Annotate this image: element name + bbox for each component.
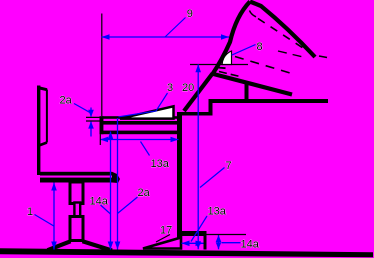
svg-text:13а: 13а [208,206,227,218]
chair base left foot [48,241,71,250]
svg-text:2а: 2а [60,95,73,107]
svg-text:9: 9 [187,8,193,20]
leader 9 [165,18,186,38]
leader 3 [119,93,168,117]
board sheet dashed line middle [235,57,290,74]
drawing board bottom edge [212,74,293,95]
svg-text:20: 20 [182,82,194,94]
board sheet dashed line upper [258,19,316,57]
desk front panel leg [177,112,182,243]
chair column lower [70,217,83,241]
chair backrest bottom cap [39,143,47,146]
desk step riser [209,99,213,116]
stray dash beyond right edge [319,56,327,58]
dimension line 13a bottom [182,242,204,244]
chair seat bottom line [40,178,114,183]
tick line for 20 [190,64,248,66]
svg-text:3: 3 [167,82,173,94]
svg-text:17: 17 [160,225,172,237]
desk slab bottom line [100,131,178,135]
leader 8 [232,45,256,56]
chair seat front edge blob [112,172,120,183]
extension line below slab left cap [99,134,101,145]
wedge stand 3 on desk [120,106,174,118]
chair backrest stem [37,86,40,176]
leader 13a left [141,142,150,156]
chair backrest right edge [46,90,48,143]
board support post [245,82,249,99]
white sail / sheet corner 8 [222,51,231,65]
board sheet dashed line lower [219,72,242,78]
desk extension tick upper (2a) [86,116,103,118]
connector to 14a bottom label [222,242,241,244]
dimension 2a upper arrows [90,108,92,117]
desk foot right drop [204,231,207,250]
desk foot bar right [179,231,207,236]
dimension line 2a second vertical [117,118,119,250]
svg-text:8: 8 [257,41,263,53]
dimension line 14a left vertical [110,132,112,250]
svg-text:14а: 14а [90,196,109,208]
floor line [0,248,373,257]
svg-text:2а: 2а [138,187,151,199]
desk slab left cap [100,116,104,134]
chair base right foot [83,241,113,250]
footrest wedge 17 [143,238,181,249]
svg-text:13а: 13а [151,158,170,170]
tick line for 14a bottom [207,234,247,236]
desk upper shelf [210,99,328,103]
svg-text:14а: 14а [241,238,260,250]
desk slab top line [100,121,178,125]
svg-text:7: 7 [226,160,232,172]
desk near surface sheet [102,116,178,119]
chair column neck [74,203,80,218]
dimension line 1 chair [53,183,55,250]
dimension line 9 [102,36,230,38]
leader 2a upper [74,104,91,113]
extension line for 9 [101,14,103,117]
svg-text:1: 1 [27,206,33,218]
dimension line 20 vertical [197,64,199,249]
chair backrest top cap [38,88,48,90]
drawing board left edge [213,2,251,75]
small ledge hook at board corner [219,67,226,70]
leader 14a left [101,205,111,214]
leader 2a second [118,197,138,214]
leader 17 black [156,235,170,243]
chair seat top line [40,172,112,176]
leader 7 [200,168,225,188]
leader 13a bottom [191,216,207,242]
desk extension tick lower (2a) [86,120,103,122]
leader 1 [35,215,54,227]
desk middle surface [181,112,213,116]
drawing board right edge [250,2,315,58]
dimension line 13a left [100,139,179,141]
dimension line 14a bottom [218,235,220,249]
board sheet dash extra [278,51,303,57]
board stand strut [184,74,213,112]
chair column upper [70,182,83,204]
board small dash near apex [250,11,257,17]
